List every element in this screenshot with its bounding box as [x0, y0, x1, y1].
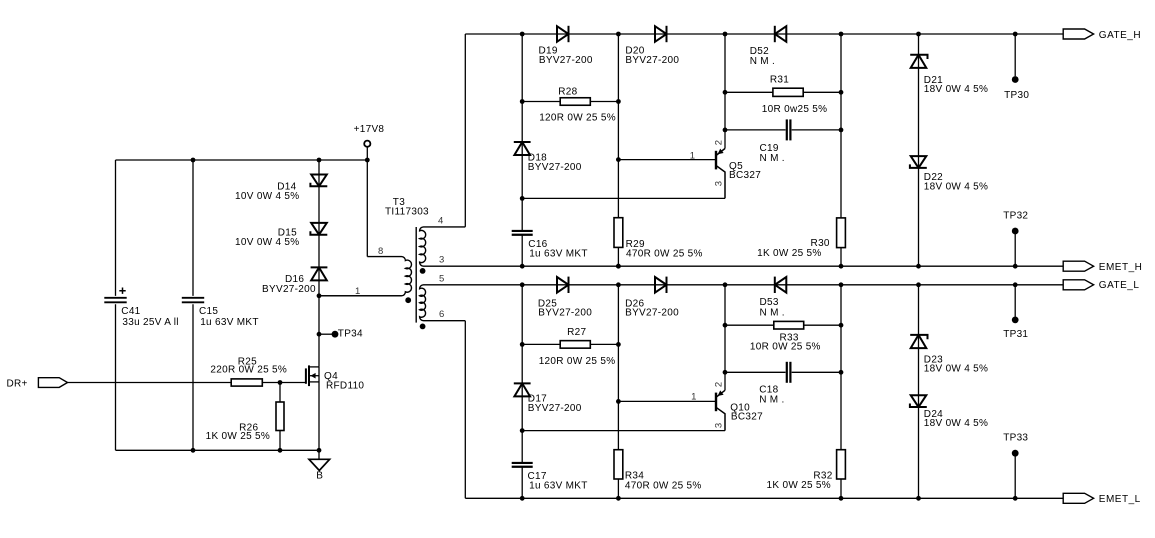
node GATE_H/D21 col: [916, 32, 921, 37]
capacitor C19: [786, 119, 788, 140]
wire GATE_H rail: [465, 33, 1063, 35]
svg-text:BYV27-200: BYV27-200: [625, 308, 679, 319]
svg-text:BYV27-200: BYV27-200: [262, 284, 316, 295]
diode D24: [911, 395, 927, 407]
svg-text:8: 8: [378, 246, 384, 257]
polarity + mark C41: [119, 288, 125, 294]
wire +17V8 supply rail: [116, 159, 368, 161]
svg-text:5: 5: [439, 274, 445, 285]
node R31 left: [723, 90, 728, 95]
wire R29 column: [617, 34, 619, 266]
diode D20: [655, 26, 667, 42]
transistor Q5: [715, 151, 717, 170]
node +17V8 junction: [365, 158, 370, 163]
ground B: [309, 459, 330, 470]
wire C41 branch upper: [115, 160, 117, 296]
connector GATE_L: [1063, 280, 1093, 290]
diode D14: [311, 175, 327, 187]
svg-text:1K 0W 25 5%: 1K 0W 25 5%: [767, 480, 831, 491]
node C18 right: [839, 370, 844, 375]
svg-text:+17V8: +17V8: [354, 124, 385, 135]
resistor R28: [560, 98, 590, 106]
svg-text:R28: R28: [558, 86, 577, 97]
svg-text:BYV27-200: BYV27-200: [528, 403, 582, 414]
node C15 top: [191, 158, 196, 163]
svg-text:10V 0W 4 5%: 10V 0W 4 5%: [235, 237, 299, 248]
node R33 left: [723, 323, 728, 328]
svg-text:N M .: N M .: [760, 307, 785, 318]
polarity dot secondary lower: [420, 324, 426, 330]
svg-text:33u 25V A ll: 33u 25V A ll: [122, 317, 178, 328]
wire zener chain / Q4 drain column: [318, 160, 320, 367]
wire R25 to Q4 gate: [262, 382, 306, 384]
capacitor C16: [512, 230, 533, 232]
svg-text:470R 0W 25 5%: 470R 0W 25 5%: [625, 480, 702, 491]
node GATE_L/R34 col: [616, 282, 621, 287]
svg-text:C15: C15: [199, 306, 218, 317]
node R26 bottom: [278, 448, 283, 453]
node Q5 base junction: [616, 157, 621, 162]
wire bottom-left ground rail: [116, 449, 320, 451]
svg-text:BC327: BC327: [729, 170, 761, 181]
diode D22: [911, 156, 927, 168]
node R33 right: [839, 323, 844, 328]
wire C16 to EMET_H: [521, 235, 523, 266]
node R30 bottom: [839, 264, 844, 269]
svg-text:TP33: TP33: [1003, 433, 1028, 444]
svg-text:120R 0W 25 5%: 120R 0W 25 5%: [539, 112, 616, 123]
svg-text:N M .: N M .: [750, 56, 775, 67]
svg-text:220R 0W 25 5%: 220R 0W 25 5%: [210, 365, 287, 376]
transistor Q4: [305, 368, 307, 383]
svg-text:TP34: TP34: [338, 329, 363, 340]
node C16 bottom: [520, 264, 525, 269]
svg-text:BYV27-200: BYV27-200: [539, 55, 593, 66]
svg-text:R27: R27: [567, 327, 586, 338]
node GATE_H/Q5 col: [723, 32, 728, 37]
node D16 cathode / pin1: [317, 293, 322, 298]
svg-text:RFD110: RFD110: [326, 381, 364, 392]
node GATE_L/R32 col: [839, 282, 844, 287]
wire R32 column: [840, 285, 842, 499]
svg-text:BYV27-200: BYV27-200: [538, 308, 592, 319]
wire C18 row right: [792, 371, 841, 373]
node D24 bottom: [916, 496, 921, 501]
svg-text:N M .: N M .: [759, 394, 784, 405]
svg-text:1u 63V MKT: 1u 63V MKT: [200, 317, 259, 328]
wire C15 branch upper: [192, 160, 194, 296]
svg-text:18V 0W 4 5%: 18V 0W 4 5%: [924, 84, 988, 95]
node R34 bottom: [616, 496, 621, 501]
svg-text:1: 1: [355, 286, 361, 297]
wire Q5 emitter column: [724, 34, 726, 149]
wire Q10 base: [618, 400, 716, 402]
transformer T3 primary winding (pins 8-1): [319, 257, 411, 296]
wire R34 column: [617, 285, 619, 499]
wire D23-D24 column: [918, 285, 920, 499]
testpoint TP34: [317, 332, 322, 337]
node Q5 collector wire left: [520, 196, 525, 201]
svg-text:4: 4: [438, 216, 444, 227]
wire pin6 riser: [464, 321, 466, 499]
node R32 bottom: [839, 496, 844, 501]
node C15 bottom: [191, 448, 196, 453]
resistor R31: [773, 88, 803, 96]
node R29 bottom: [616, 264, 621, 269]
resistor R30: [837, 218, 846, 248]
connector GATE_H: [1063, 29, 1093, 39]
diode D16: [311, 267, 327, 280]
wire R28 row: [522, 101, 618, 103]
polarity dot secondary upper: [420, 268, 426, 274]
svg-text:3: 3: [439, 255, 445, 266]
svg-text:1u 63V MKT: 1u 63V MKT: [529, 249, 588, 260]
connector EMET_H: [1063, 261, 1093, 271]
transformer T3 core: [415, 227, 417, 323]
resistor R32: [837, 450, 846, 479]
resistor R26: [276, 402, 284, 431]
svg-text:1: 1: [690, 150, 696, 161]
testpoint TP30: [1014, 34, 1016, 76]
svg-text:120R 0W 25 5%: 120R 0W 25 5%: [539, 356, 616, 367]
node D22 bottom: [916, 264, 921, 269]
node zener chain top: [317, 158, 322, 163]
polarity dot primary: [405, 297, 411, 303]
wire C41 branch lower: [115, 304, 117, 450]
node R27 right: [616, 342, 621, 347]
node Q10 base junction: [616, 399, 621, 404]
svg-text:18V 0W 4 5%: 18V 0W 4 5%: [924, 181, 988, 192]
diode D53: [775, 277, 787, 293]
node C19 left: [723, 127, 728, 132]
diode D26: [655, 277, 667, 293]
capacitor C17: [512, 462, 533, 464]
svg-text:GATE_L: GATE_L: [1099, 280, 1140, 291]
wire Q10 collector row: [522, 430, 725, 432]
testpoint TP31: [1014, 285, 1016, 317]
node C19 right: [839, 127, 844, 132]
svg-text:3: 3: [714, 181, 725, 187]
diode D17: [514, 383, 530, 396]
svg-text:R31: R31: [770, 74, 789, 85]
node R28 left: [520, 99, 525, 104]
wire DR+ to R25: [68, 382, 232, 384]
wire D18-C16 column upper: [521, 34, 523, 231]
transformer T3 secondary winding lower (pins 5-6): [420, 285, 1064, 321]
svg-text:B: B: [316, 470, 323, 481]
node C17 bottom: [520, 496, 525, 501]
node EMET_H/TP32: [1013, 264, 1018, 269]
wire R33 row: [725, 324, 841, 326]
terminal +17V8: [364, 141, 370, 147]
node C18 left: [723, 370, 728, 375]
svg-text:6: 6: [439, 309, 445, 320]
diode D23: [911, 335, 927, 348]
svg-text:1K 0W 25 5%: 1K 0W 25 5%: [757, 248, 821, 259]
svg-text:10R 0w25 5%: 10R 0w25 5%: [762, 104, 828, 115]
svg-text:10R 0W 25 5%: 10R 0W 25 5%: [750, 342, 821, 353]
node EMET_L/TP33: [1013, 496, 1018, 501]
wire Q10 emitter column: [724, 285, 726, 391]
node Q4 source: [317, 448, 322, 453]
svg-text:2: 2: [714, 140, 725, 146]
wire C18 row left: [725, 371, 786, 373]
wire R26 branch: [279, 383, 281, 451]
node GATE_H/D18 col: [520, 32, 525, 37]
svg-text:470R 0W 25 5%: 470R 0W 25 5%: [626, 249, 703, 260]
svg-text:18V 0W 4 5%: 18V 0W 4 5%: [924, 418, 988, 429]
resistor R25: [231, 379, 262, 386]
node GATE_L/D23 col: [916, 282, 921, 287]
diode D18: [514, 142, 530, 155]
node GATE_L/D17 col: [520, 282, 525, 287]
capacitor C41: [104, 297, 126, 299]
node EMET_H/R29: [616, 264, 621, 269]
capacitor C18: [786, 362, 788, 383]
wire EMET_L rail: [465, 497, 1063, 499]
node Q10 collector wire left: [520, 428, 525, 433]
diode D21: [911, 55, 927, 68]
svg-text:1: 1: [691, 391, 697, 402]
wire pin4 riser: [464, 34, 466, 227]
svg-text:10V 0W 4 5%: 10V 0W 4 5%: [235, 191, 299, 202]
resistor R27: [560, 341, 590, 349]
wire R30 column: [840, 34, 842, 266]
resistor R33: [774, 321, 804, 329]
svg-text:BC327: BC327: [731, 412, 763, 423]
svg-text:18V 0W 4 5%: 18V 0W 4 5%: [924, 364, 988, 375]
wire R27 row: [522, 343, 618, 345]
svg-text:C41: C41: [121, 306, 140, 317]
node GATE_H/R30 col: [839, 32, 844, 37]
svg-text:TP31: TP31: [1003, 329, 1028, 340]
node R26 top: [278, 380, 283, 385]
wire C19 row left: [725, 129, 786, 131]
svg-text:DR+: DR+: [7, 378, 28, 389]
svg-text:BYV27-200: BYV27-200: [625, 55, 679, 66]
resistor R34: [614, 450, 623, 479]
wire transformer pin 1: [319, 295, 402, 297]
wire D21-D22 column: [918, 34, 920, 266]
node GATE_H/R29 col: [616, 32, 621, 37]
wire C19 row right: [792, 129, 841, 131]
wire Q5 collector row: [522, 197, 725, 199]
svg-text:2: 2: [714, 382, 725, 388]
svg-text:TI117303: TI117303: [385, 206, 429, 217]
svg-text:1u 63V MKT: 1u 63V MKT: [529, 480, 588, 491]
svg-text:BYV27-200: BYV27-200: [528, 162, 582, 173]
connector EMET_L: [1063, 493, 1093, 503]
svg-text:N M .: N M .: [760, 153, 785, 164]
node R27 left: [520, 342, 525, 347]
wire R31 row: [725, 91, 841, 93]
svg-text:GATE_H: GATE_H: [1099, 30, 1141, 41]
svg-text:TP30: TP30: [1004, 90, 1029, 101]
resistor R29: [614, 218, 623, 248]
transformer T3 secondary winding upper (pins 4-3): [420, 227, 1064, 266]
svg-text:EMET_H: EMET_H: [1099, 262, 1143, 273]
diode D19: [557, 26, 569, 42]
node GATE_L/TP31: [1013, 282, 1018, 287]
wire Q5 base: [618, 159, 716, 161]
svg-text:1K 0W 25 5%: 1K 0W 25 5%: [206, 431, 270, 442]
diode D15: [311, 223, 327, 235]
node GATE_H/TP30: [1013, 32, 1018, 37]
wire C15 branch lower: [192, 304, 194, 450]
wire D17-C17 column upper: [521, 285, 523, 463]
capacitor C15: [182, 297, 204, 299]
connector DR+: [38, 378, 67, 388]
transistor Q10: [715, 393, 717, 412]
diode D25: [557, 277, 569, 293]
svg-text:TP32: TP32: [1003, 211, 1028, 222]
svg-text:3: 3: [714, 423, 725, 429]
wire C17 to EMET_L: [521, 467, 523, 499]
node GATE_L/Q10 col: [723, 282, 728, 287]
diode D52: [775, 26, 787, 42]
node R28 right: [616, 99, 621, 104]
svg-text:EMET_L: EMET_L: [1099, 494, 1141, 505]
node R31 right: [839, 90, 844, 95]
